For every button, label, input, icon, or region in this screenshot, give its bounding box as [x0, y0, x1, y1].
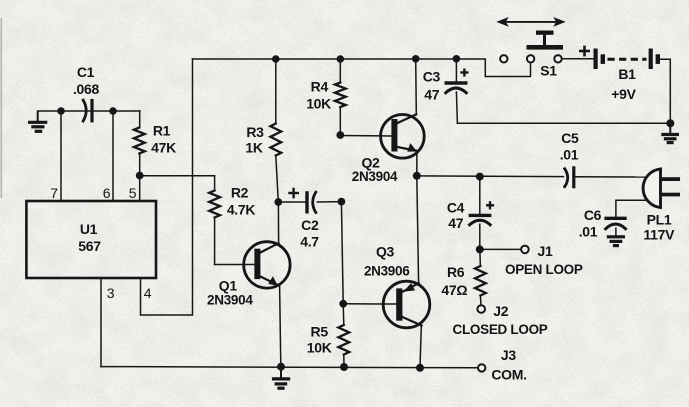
wire Q1 collector up to C2 node [277, 202, 279, 244]
node pin7 junction [57, 107, 65, 115]
node R4 top junction [337, 55, 345, 63]
wire pin 4 [141, 59, 193, 315]
wire C1 net horizontal [38, 110, 140, 112]
svg-text:7: 7 [50, 185, 58, 201]
plus sign battery [579, 46, 590, 57]
svg-text:4: 4 [144, 285, 152, 301]
svg-text:OPEN LOOP: OPEN LOOP [505, 262, 583, 277]
resistor R3 [270, 59, 281, 202]
svg-text:U1: U1 [80, 221, 98, 237]
node C4 top junction [476, 173, 484, 181]
svg-text:4.7K: 4.7K [227, 202, 256, 218]
wire battery negative down [660, 59, 670, 123]
svg-text:J1: J1 [538, 243, 553, 259]
node C2 right junction [338, 198, 346, 206]
plus sign C4 [486, 201, 494, 209]
jack J2 [477, 305, 485, 313]
capacitor C2 [278, 192, 341, 212]
wire Q3 base [343, 303, 396, 305]
jack J3 [478, 364, 485, 371]
plus sign C2 [288, 188, 299, 199]
wire pin 3 [100, 278, 102, 367]
wire Q1 emitter down to ground rail [280, 286, 281, 367]
svg-text:J2: J2 [493, 303, 508, 319]
svg-text:2N3904: 2N3904 [207, 293, 253, 308]
wire bottom rail [101, 367, 478, 368]
svg-text:1K: 1K [245, 140, 262, 156]
svg-text:+9V: +9V [611, 86, 636, 102]
IC U1 box [26, 201, 156, 278]
svg-text:.01: .01 [560, 147, 579, 163]
battery dashes [608, 58, 647, 61]
node pin5 / R1 bottom junction [136, 172, 144, 180]
resistor R5 [338, 304, 349, 367]
resistor R1 [134, 111, 145, 176]
resistor R2 [209, 176, 220, 265]
node pin6 junction [109, 107, 117, 115]
capacitor C4 [470, 177, 491, 250]
battery B1 [594, 49, 661, 70]
wire S1 to battery [562, 58, 594, 60]
node battery ground junction [666, 119, 674, 127]
capacitor C5 [565, 168, 574, 187]
svg-text:R5: R5 [311, 324, 329, 340]
scan edge artifact left [1, 18, 3, 198]
wire top rail [193, 59, 531, 77]
svg-text:C1: C1 [77, 64, 95, 80]
node C3 top junction [453, 55, 461, 63]
wire R2 to Q1 base [215, 264, 255, 266]
svg-text:47K: 47K [151, 140, 176, 156]
node Q3 base junction [339, 300, 347, 308]
svg-text:R6: R6 [447, 264, 465, 280]
svg-text:2N3904: 2N3904 [352, 169, 398, 184]
node R3 top junction [272, 55, 280, 63]
svg-text:10K: 10K [306, 96, 331, 112]
wire R4 node to Q2 base [340, 135, 391, 138]
wire to J1 [480, 248, 521, 250]
svg-text:567: 567 [78, 238, 101, 254]
node R4 bottom / Q2 base junction [336, 131, 344, 139]
wire pin 7 [60, 111, 62, 201]
svg-text:R1: R1 [153, 123, 171, 139]
node R5 bottom junction [340, 363, 348, 371]
svg-text:10K: 10K [307, 340, 332, 356]
transistor Q3 2N3906 [383, 281, 430, 328]
svg-text:C6: C6 [584, 207, 602, 223]
svg-text:2N3906: 2N3906 [364, 264, 410, 279]
transistor Q1 2N3904 [244, 242, 290, 288]
wire Q3 collector down to rail [420, 326, 421, 368]
svg-text:117V: 117V [643, 227, 675, 243]
svg-text:47Ω: 47Ω [441, 282, 467, 298]
double arrow above S1 [496, 17, 565, 27]
svg-text:CLOSED LOOP: CLOSED LOOP [453, 322, 548, 337]
wire Q3 emitter vertical [417, 176, 419, 283]
svg-text:PL1: PL1 [647, 212, 672, 228]
wire C5 to plug [576, 176, 646, 178]
node ground rail junction [277, 363, 285, 371]
svg-text:J3: J3 [501, 347, 516, 363]
capacitor C3 [446, 59, 467, 123]
wire Q2 collector [415, 59, 418, 115]
svg-text:R3: R3 [246, 124, 264, 140]
ground G1 (left of C1) [28, 111, 47, 131]
svg-text:47: 47 [424, 87, 439, 103]
ground G3 (battery) [661, 123, 679, 142]
svg-text:5: 5 [129, 185, 137, 201]
wire battery ground rail [457, 122, 670, 124]
node Q3 collector rail junction [416, 364, 424, 372]
svg-text:47: 47 [448, 215, 463, 231]
node Q2 collector top junction [412, 55, 420, 63]
svg-text:Q1: Q1 [219, 278, 238, 294]
svg-text:S1: S1 [540, 63, 557, 79]
ground G4 (C6) [607, 237, 625, 246]
wire Q2 emitter to output rail [416, 152, 418, 176]
svg-text:6: 6 [103, 185, 111, 201]
svg-text:R2: R2 [231, 185, 249, 201]
node Q2 emitter / output junction [413, 172, 421, 180]
svg-text:4.7: 4.7 [300, 234, 319, 250]
svg-text:C3: C3 [423, 69, 441, 85]
plus sign C3 [460, 69, 468, 77]
wire pin 6 [112, 111, 114, 201]
svg-text:B1: B1 [618, 66, 636, 82]
svg-text:R4: R4 [311, 79, 329, 95]
node C4 bottom junction [476, 245, 484, 253]
svg-text:C4: C4 [447, 200, 465, 216]
capacitor C6 [606, 218, 626, 235]
transistor Q2 2N3904 [381, 114, 425, 158]
jack J1 [521, 246, 529, 254]
switch S1 plunger [527, 31, 564, 50]
ground G2 (bottom center) [272, 367, 290, 389]
wire C2 right node down to Q3 base node [341, 202, 343, 304]
node C2 left junction [274, 198, 282, 206]
svg-text:COM.: COM. [491, 367, 526, 383]
svg-text:.068: .068 [73, 81, 100, 97]
wire pin 5 [139, 176, 141, 202]
svg-text:Q3: Q3 [376, 244, 395, 260]
svg-text:.01: .01 [579, 224, 598, 240]
svg-text:C2: C2 [301, 217, 319, 233]
svg-text:C5: C5 [561, 130, 579, 146]
wire plug lower to C6 [616, 200, 646, 216]
switch S1 contacts [500, 55, 562, 62]
wire R1 node to R2 [140, 175, 215, 177]
resistor R6 [475, 249, 486, 305]
resistor R4 [335, 59, 346, 135]
wire output rail [417, 175, 564, 178]
capacitor C1 [83, 100, 92, 121]
svg-text:3: 3 [107, 285, 115, 301]
plug PL1 [643, 169, 680, 208]
